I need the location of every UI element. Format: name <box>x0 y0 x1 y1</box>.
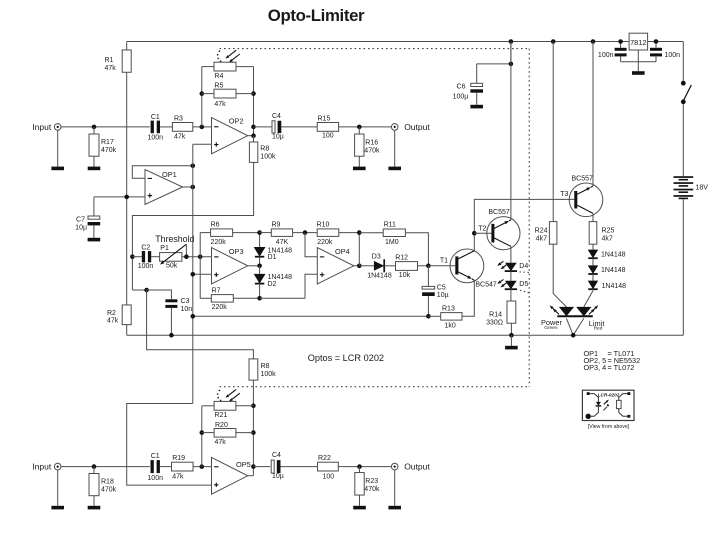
node rail junctions <box>509 39 659 44</box>
svg-text:C5: C5 <box>437 285 446 292</box>
svg-text:7812: 7812 <box>630 38 646 47</box>
svg-text:BC557: BC557 <box>488 209 510 216</box>
svg-text:47k: 47k <box>215 439 227 446</box>
note op-amp types <box>584 349 641 372</box>
wire input jack ground <box>57 130 59 166</box>
wire T2 collector to D4 <box>510 246 512 262</box>
svg-text:470k: 470k <box>101 147 117 154</box>
wire C6 tap <box>477 42 514 67</box>
svg-text:R3: R3 <box>174 116 183 123</box>
svg-text:10µ: 10µ <box>272 133 284 140</box>
wire T1 collector to T2/T3 bases <box>472 199 574 235</box>
wire LDR branch right <box>251 67 256 136</box>
resistor R17 470k <box>89 127 117 167</box>
svg-text:Opto-Limiter: Opto-Limiter <box>268 6 365 25</box>
wire battery branch right side <box>682 42 684 336</box>
ground (input jack top) <box>51 167 64 171</box>
svg-text:T2: T2 <box>478 225 486 232</box>
ground (R17) <box>88 167 101 171</box>
light arrows onto R4 <box>217 50 240 62</box>
light arrows onto R21 <box>217 389 240 401</box>
transistor T1 BC547 <box>440 233 497 288</box>
ground (output jack top) <box>388 167 401 171</box>
svg-text:R14: R14 <box>489 312 502 319</box>
svg-text:C1: C1 <box>151 453 160 460</box>
diode chain 1N4148 (x3) <box>588 244 626 265</box>
wire R6/R7 left branch <box>199 233 201 299</box>
svg-text:100: 100 <box>322 133 334 140</box>
resistor R15 100 <box>317 116 391 140</box>
svg-text:47K: 47K <box>276 239 289 246</box>
LED Power (green) <box>541 244 575 335</box>
LED Limit (red) <box>573 291 604 336</box>
svg-text:D1: D1 <box>268 254 277 261</box>
svg-text:R19: R19 <box>172 455 185 462</box>
svg-text:10µ: 10µ <box>272 473 284 480</box>
ground (R23) <box>353 506 366 510</box>
wire input to C1 <box>61 125 150 130</box>
resistor R10 220k <box>303 221 360 246</box>
ground (C7) <box>88 238 101 242</box>
svg-text:220k: 220k <box>212 304 228 311</box>
svg-text:4k7: 4k7 <box>602 235 613 242</box>
capacitor C3 10n <box>147 290 193 338</box>
svg-text:R25: R25 <box>602 227 615 234</box>
wire C4 to R15 <box>281 126 317 128</box>
svg-text:4k7: 4k7 <box>536 235 547 242</box>
wire T1 base <box>428 265 455 267</box>
regulator 7812 <box>621 33 656 62</box>
svg-text:R20: R20 <box>215 422 228 429</box>
wire C4 to R22 <box>281 466 318 468</box>
resistor R13 1k0 <box>428 280 474 329</box>
op-amp OP5 <box>212 457 251 494</box>
svg-text:OP3: OP3 <box>229 247 244 256</box>
photo-resistor R4 (LDR) <box>202 62 254 80</box>
svg-text:470k: 470k <box>364 148 380 155</box>
wire OP2 + input <box>193 143 212 145</box>
wire reference loop to OP5 + <box>127 404 212 486</box>
svg-text:R10: R10 <box>317 221 330 228</box>
svg-text:Input: Input <box>32 462 52 472</box>
svg-text:Optos = LCR 0202: Optos = LCR 0202 <box>308 353 384 363</box>
note Optos <box>308 353 384 363</box>
wire psu caps common <box>621 62 656 71</box>
potentiometer P1 50k Threshold <box>151 234 194 270</box>
wire R8 to R21/R20 branch <box>251 380 256 476</box>
svg-text:100n: 100n <box>665 52 681 59</box>
resistor R12 10k <box>384 255 431 280</box>
svg-text:BC547: BC547 <box>475 281 497 288</box>
svg-text:D3: D3 <box>372 253 381 260</box>
resistor R1 47k <box>105 42 132 73</box>
svg-text:C2: C2 <box>141 244 150 251</box>
wire OP1 feedback loop <box>132 164 195 179</box>
svg-text:47k: 47k <box>172 473 184 480</box>
capacitor C2 100n <box>132 244 153 270</box>
svg-text:47k: 47k <box>214 101 226 108</box>
resistor R25 4k7 <box>589 222 614 245</box>
wire input to C1 (bottom) <box>61 464 150 469</box>
resistor R8 100k (bottom) <box>249 359 276 380</box>
ground (input jack bottom) <box>51 506 64 510</box>
svg-text:C6: C6 <box>457 83 466 90</box>
wire LDR branch left <box>200 67 205 127</box>
svg-text:100n: 100n <box>138 263 154 270</box>
svg-text:100k: 100k <box>261 371 277 378</box>
svg-text:R18: R18 <box>101 479 114 486</box>
svg-text:100n: 100n <box>598 52 614 59</box>
svg-text:P1: P1 <box>160 245 169 252</box>
resistor R7 220k <box>200 287 259 311</box>
transistor T2 BC557 <box>478 209 520 250</box>
capacitor C4 10u (bottom) <box>271 452 284 480</box>
node LED cathodes on rail <box>571 333 576 338</box>
resistor R11 1M0 <box>359 221 428 265</box>
switch S1 <box>681 81 691 104</box>
svg-text:47k: 47k <box>174 134 186 141</box>
resistor R8 100k (top) <box>249 136 276 163</box>
wire OP4 output <box>354 230 362 268</box>
resistor R24 4k7 <box>535 42 557 245</box>
svg-text:BC557: BC557 <box>572 176 594 183</box>
op-amp OP2 <box>212 116 248 154</box>
svg-text:[View from above]: [View from above] <box>588 424 630 430</box>
svg-text:D2: D2 <box>268 281 277 288</box>
svg-text:R22: R22 <box>318 455 331 462</box>
wire R8 to C3 node <box>132 162 253 290</box>
resistor R3 47k <box>160 116 212 141</box>
wire R21/R20 left branch <box>200 406 205 467</box>
svg-text:R21: R21 <box>215 412 228 419</box>
resistor R18 470k <box>89 467 117 506</box>
svg-text:R1: R1 <box>105 57 114 64</box>
svg-text:R13: R13 <box>442 306 455 313</box>
opto-coupler package LCR-0202 (view from above) <box>582 390 634 430</box>
svg-text:47k: 47k <box>107 318 119 325</box>
svg-text:Threshold: Threshold <box>155 234 194 244</box>
wire sidechain rail (bus to R13) <box>191 314 431 319</box>
svg-text:OP1: OP1 <box>162 170 177 179</box>
diode D1 1N4148 <box>254 230 292 265</box>
ground (R18) <box>88 506 101 510</box>
wire OP1 output <box>183 185 196 190</box>
LED D4 <box>497 261 528 281</box>
svg-text:D5: D5 <box>519 281 528 288</box>
resistor R2 47k <box>107 305 131 335</box>
svg-text:470k: 470k <box>364 486 380 493</box>
wire C7 tap <box>94 195 145 200</box>
svg-text:47k: 47k <box>105 65 117 72</box>
resistor R16 470k <box>355 127 380 167</box>
svg-text:R9: R9 <box>272 221 281 228</box>
svg-text:100µ: 100µ <box>453 94 469 101</box>
svg-text:330Ω: 330Ω <box>486 320 503 327</box>
svg-text:R2: R2 <box>107 310 116 317</box>
svg-text:R16: R16 <box>365 140 378 147</box>
node OP5 inverting input <box>200 464 205 469</box>
svg-text:Input: Input <box>32 122 52 132</box>
svg-text:R24: R24 <box>535 227 548 234</box>
svg-text:R8: R8 <box>260 145 269 152</box>
svg-text:1N4148: 1N4148 <box>601 251 626 258</box>
wire T2 emitter to rail <box>510 42 512 220</box>
wire 0V bottom rail <box>127 334 684 336</box>
svg-text:10k: 10k <box>399 272 411 279</box>
capacitor C7 10u <box>75 197 100 238</box>
wire +12V top rail <box>127 41 684 43</box>
wire reference bus (OP1 output) <box>192 144 194 403</box>
capacitor C1 100n (bottom) <box>147 453 163 482</box>
svg-text:100: 100 <box>323 473 335 480</box>
svg-text:R15: R15 <box>318 116 331 123</box>
resistor R9 47K <box>271 221 317 246</box>
svg-text:Red: Red <box>594 326 603 332</box>
svg-text:R4: R4 <box>214 73 223 80</box>
svg-text:R11: R11 <box>384 221 396 228</box>
svg-text:C3: C3 <box>181 298 190 305</box>
resistor R19 47k <box>159 455 211 480</box>
wire T3 emitter to rail <box>592 42 594 187</box>
wire output jack ground (bottom) <box>394 470 396 506</box>
capacitor C5 10u <box>422 266 449 317</box>
svg-text:10µ: 10µ <box>437 292 449 299</box>
transistor T3 BC557 <box>560 176 603 217</box>
diode D2 1N4148 <box>254 266 292 301</box>
node OP2 inverting input <box>200 125 205 130</box>
svg-text:100n: 100n <box>147 475 163 482</box>
svg-text:R12: R12 <box>395 255 408 262</box>
svg-text:R7: R7 <box>212 287 221 294</box>
svg-text:50k: 50k <box>166 263 178 270</box>
svg-text:18V: 18V <box>696 184 709 191</box>
svg-text:Output: Output <box>404 462 430 472</box>
wire R9 left <box>260 232 272 234</box>
svg-text:T1: T1 <box>440 257 448 264</box>
svg-text:1N4148: 1N4148 <box>367 273 392 280</box>
svg-text:R23: R23 <box>365 478 378 485</box>
resistor R6 220k <box>200 221 259 246</box>
capacitor C6 100u <box>453 64 483 105</box>
svg-text:C4: C4 <box>272 113 281 120</box>
op-amp OP4 <box>317 247 354 284</box>
svg-text:LCR-0202: LCR-0202 <box>598 393 620 398</box>
capacitor 100n (7812 input side) <box>650 42 680 62</box>
ground (7812) <box>632 71 645 75</box>
ground (C6) <box>470 105 483 109</box>
svg-text:= TL072: = TL072 <box>608 363 635 372</box>
svg-text:OP5: OP5 <box>236 460 251 469</box>
node Input (bottom channel) <box>32 462 61 472</box>
svg-text:C4: C4 <box>272 452 281 459</box>
wire OP4 + input branch <box>260 274 318 298</box>
ground (R16) <box>353 167 366 171</box>
node Output (bottom channel) <box>391 462 430 472</box>
wire OP2 output <box>248 127 272 138</box>
wire input jack ground (bottom) <box>57 470 59 506</box>
resistor R20 47k <box>202 422 254 446</box>
svg-text:220k: 220k <box>211 239 227 246</box>
wire P1 to OP3 - <box>182 254 212 259</box>
svg-text:Green: Green <box>544 325 558 331</box>
svg-text:R17: R17 <box>101 139 114 146</box>
svg-text:220k: 220k <box>317 239 333 246</box>
svg-text:Output: Output <box>404 122 430 132</box>
wire output jack ground (top) <box>394 130 396 166</box>
svg-text:R8: R8 <box>261 363 270 370</box>
wire T3 collector to R25 <box>592 213 594 221</box>
svg-text:470k: 470k <box>101 487 117 494</box>
svg-text:1k0: 1k0 <box>445 322 456 329</box>
node Input (top channel) <box>32 122 61 132</box>
svg-text:100n: 100n <box>148 135 164 142</box>
svg-text:C7: C7 <box>76 216 85 223</box>
wire OP5 output <box>248 467 271 476</box>
wire bias bus (R1 to R2) <box>126 72 128 305</box>
op-amp OP3 <box>212 247 248 284</box>
capacitor 100n (7812 output side) <box>598 42 627 62</box>
wire C3 node vertical <box>130 254 149 292</box>
svg-text:R6: R6 <box>211 221 220 228</box>
svg-text:OP4: OP4 <box>335 247 350 256</box>
svg-text:10n: 10n <box>181 306 193 313</box>
svg-text:1M0: 1M0 <box>385 239 399 246</box>
capacitor C1 100n (top) <box>148 114 164 142</box>
wire OP4 - input branch <box>305 233 317 257</box>
node OP3 + on bus <box>191 272 212 277</box>
photo-resistor R21 (LDR) <box>202 401 254 419</box>
optical coupling dotted path <box>220 49 530 387</box>
diode D3 1N4148 <box>359 253 392 279</box>
svg-text:1N4148: 1N4148 <box>602 283 627 290</box>
resistor R22 100 <box>318 455 392 480</box>
resistor R5 47k <box>202 83 254 108</box>
wire stereo link to lower R8 <box>147 290 254 359</box>
svg-text:100k: 100k <box>260 153 276 160</box>
svg-text:C1: C1 <box>151 114 160 121</box>
ground (R14 node) <box>505 333 518 349</box>
resistor R23 470k <box>355 467 380 506</box>
op-amp OP1 <box>145 170 183 205</box>
battery 18V <box>674 176 709 199</box>
svg-text:OP3, 4: OP3, 4 <box>584 363 607 372</box>
svg-text:T3: T3 <box>560 191 568 198</box>
svg-text:OP2: OP2 <box>229 116 244 125</box>
capacitor C4 10u (top) <box>272 113 284 140</box>
node Output (top channel) <box>391 122 430 132</box>
svg-text:R5: R5 <box>214 83 223 90</box>
wire OP3 output <box>248 264 262 269</box>
svg-text:10µ: 10µ <box>75 225 87 232</box>
svg-text:D4: D4 <box>519 263 528 270</box>
LED D5 <box>497 279 528 301</box>
wire T2 base <box>474 232 491 234</box>
svg-text:1N4148: 1N4148 <box>601 267 626 274</box>
title <box>268 6 365 25</box>
resistor R14 330R <box>486 301 516 335</box>
ground (output jack bottom) <box>388 506 401 510</box>
